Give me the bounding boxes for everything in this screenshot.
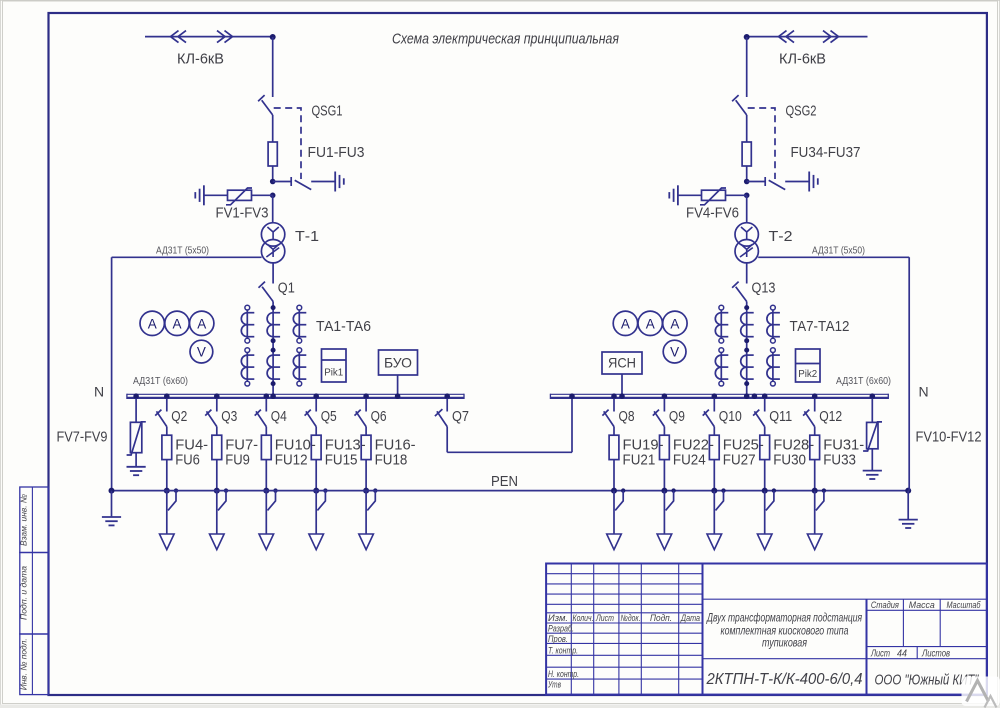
fuse FU22-FU24 [660, 435, 670, 459]
ammeter A4 [613, 311, 637, 335]
switch Q11 [764, 398, 766, 411]
PEN disconnect link [174, 488, 178, 492]
svg-text:Pik2: Pik2 [798, 368, 817, 380]
svg-text:А: А [646, 316, 655, 331]
svg-text:FU18: FU18 [375, 452, 408, 469]
svg-text:Q2: Q2 [171, 408, 187, 425]
svg-text:Разраб.: Разраб. [548, 624, 574, 634]
svg-text:Лист: Лист [595, 613, 614, 623]
svg-text:FU34-FU37: FU34-FU37 [791, 144, 861, 161]
fuse FU28-FU30 [760, 435, 770, 459]
svg-text:FU15: FU15 [325, 452, 358, 469]
node: junction below fuse [270, 179, 276, 185]
svg-text:Взам. инв. №: Взам. инв. № [19, 494, 29, 546]
disconnector QSG2 [732, 95, 739, 101]
outgoing feeder arrow [757, 534, 772, 550]
PEN disconnect link [822, 488, 826, 492]
outgoing feeder arrow [160, 534, 175, 550]
svg-text:Схема электрическая принципиал: Схема электрическая принципиальная [392, 31, 619, 48]
svg-text:Двух трансформаторная подстанц: Двух трансформаторная подстанция [706, 612, 862, 624]
fuse FU16-FU18 [361, 435, 371, 459]
svg-text:ТА7-ТА12: ТА7-ТА12 [790, 318, 850, 335]
watermark logo [962, 677, 1000, 707]
PEN disconnect link [621, 488, 625, 492]
surge arrester FV4-FV6 [702, 190, 726, 200]
ground (FV7-FV9) [127, 466, 146, 468]
sidebar box Подп. и дата [20, 553, 49, 635]
cable chevrons left-pointing [171, 31, 179, 43]
junction on PEN [762, 488, 768, 494]
svg-text:Н. контр.: Н. контр. [548, 669, 579, 679]
node: PEN left end [109, 488, 115, 494]
svg-text:Подп.: Подп. [650, 613, 672, 623]
node: bus junction Q7 [444, 393, 450, 399]
title block grid [570, 564, 572, 695]
svg-text:Утв: Утв [547, 679, 561, 689]
switch Q8 [613, 398, 615, 411]
node: bus junction infeed [270, 393, 276, 399]
ground (PEN right) [907, 491, 909, 519]
control box БУО [379, 350, 418, 375]
ground (FV10-FV12) [863, 470, 882, 472]
ground (QSG1 earthing switch) [334, 172, 336, 192]
junction on bus for Q6 [363, 393, 369, 399]
node: incoming junction [270, 34, 276, 40]
node: bus junction tie [569, 393, 575, 399]
PEN disconnect link [273, 488, 277, 492]
fuse FU34-FU37 [742, 142, 751, 166]
junction on bus for Q8 [611, 393, 617, 399]
svg-text:А: А [197, 316, 206, 331]
svg-text:Листов: Листов [921, 649, 950, 660]
fuse FU13-FU15 [311, 435, 321, 459]
cable АД31Т (5х50) right: wire from T-2 to right riser [758, 256, 909, 258]
outgoing feeder wire [663, 491, 665, 534]
junction on bus for Q5 [313, 393, 319, 399]
ground (PEN left) [111, 491, 113, 517]
switch Q2 [166, 398, 168, 411]
switch Q6 [365, 398, 367, 411]
wire: incoming cable line КЛ-6кВ right [747, 36, 868, 38]
node: junction below fuse right [744, 179, 750, 185]
svg-text:FU24: FU24 [673, 452, 706, 469]
svg-text:№док.: №док. [621, 613, 641, 623]
wire down to QSG1 [272, 37, 274, 97]
outgoing feeder wire [365, 491, 367, 534]
sidebar box Инв. № подл. [20, 634, 49, 695]
svg-text:N: N [94, 384, 104, 400]
junction on bus for Q3 [214, 393, 220, 399]
fuse FU10-FU12 [261, 435, 271, 459]
outgoing feeder arrow [359, 534, 374, 550]
svg-text:Q1: Q1 [278, 279, 295, 296]
transformer T-1 [261, 223, 284, 246]
svg-text:Подп. и дата: Подп. и дата [19, 566, 29, 620]
earthing switch of QSG1 [273, 181, 292, 183]
fuse FU25-FU27 [709, 435, 719, 459]
switch Q12 [814, 398, 816, 411]
node: bus junction FV7-FV9 [133, 393, 139, 399]
busbar section 2 [550, 393, 888, 395]
ammeter A1 [140, 311, 164, 335]
svg-text:Т-2: Т-2 [769, 228, 793, 245]
surge arrester FV1-FV3 [228, 190, 252, 200]
outgoing feeder wire [613, 491, 615, 534]
ground (FV4-FV6) [677, 185, 679, 205]
outgoing feeder wire [265, 491, 267, 534]
svg-text:FU33: FU33 [823, 452, 856, 469]
junction on bus for Q12 [812, 393, 818, 399]
svg-text:АД31Т (5х50): АД31Т (5х50) [812, 245, 865, 257]
svg-text:А: А [621, 316, 630, 331]
junction on PEN [711, 488, 717, 494]
svg-text:FU27: FU27 [723, 452, 756, 469]
svg-text:АД31Т (5х50): АД31Т (5х50) [156, 245, 209, 257]
cable АД31Т (5х50) left: wire from T-1 to left riser [112, 256, 262, 258]
ground (FV1-FV3) [203, 185, 205, 205]
switch Q10 [713, 398, 715, 411]
surge arrester FV7-FV9 [135, 398, 137, 422]
junction on PEN [363, 488, 369, 494]
svg-text:Изм.: Изм. [548, 613, 568, 623]
svg-text:Q12: Q12 [819, 408, 842, 425]
title block outer [546, 564, 987, 695]
svg-text:Т-1: Т-1 [295, 228, 319, 245]
junction on bus for Q11 [762, 393, 768, 399]
svg-text:FU12: FU12 [275, 452, 308, 469]
svg-text:FU6: FU6 [175, 452, 200, 469]
PEN disconnect link [721, 488, 725, 492]
junction on PEN [313, 488, 319, 494]
svg-text:Пров.: Пров. [548, 634, 568, 644]
surge arrester FV10-FV12 [871, 398, 873, 422]
ammeter A5 [638, 311, 662, 335]
svg-text:Q4: Q4 [271, 408, 287, 425]
ground (QSG2 earthing switch) [808, 172, 810, 192]
outgoing feeder wire [713, 491, 715, 534]
meter box Pik2 [796, 349, 821, 382]
wire to FV1-FV3 [252, 194, 273, 196]
svg-text:PEN: PEN [491, 473, 518, 490]
current transformers ТА7-ТА12 [720, 310, 722, 338]
disconnector QSG1 [258, 95, 265, 101]
outgoing feeder wire [166, 491, 168, 534]
svg-text:V: V [670, 345, 679, 360]
wire bus tie horizontal [447, 451, 572, 453]
svg-text:АД31Т (6х60): АД31Т (6х60) [836, 375, 891, 387]
svg-text:Pik1: Pik1 [324, 367, 343, 379]
sidebar box Взам. инв. № [20, 487, 49, 553]
svg-text:QSG1: QSG1 [312, 103, 343, 120]
auxiliary box ЯСН [602, 352, 642, 374]
svg-text:Дата: Дата [680, 613, 700, 623]
svg-text:2КТПН-Т-К/К-400-6/0,4: 2КТПН-Т-К/К-400-6/0,4 [706, 671, 863, 688]
svg-text:FU30: FU30 [773, 452, 806, 469]
wire: incoming cable line КЛ-6кВ left [145, 36, 273, 38]
junction on PEN [661, 488, 667, 494]
svg-text:FU21: FU21 [623, 452, 656, 469]
outgoing feeder arrow [309, 534, 324, 550]
outgoing feeder wire [315, 491, 317, 534]
ammeter A3 [190, 311, 214, 335]
wire T-1 to Q1 [272, 263, 274, 284]
svg-text:КЛ-6кВ: КЛ-6кВ [177, 51, 224, 68]
fuse FU7-FU9 [212, 435, 222, 459]
switch Q9 [663, 398, 665, 411]
outgoing feeder arrow [210, 534, 225, 550]
svg-text:А: А [172, 316, 181, 331]
ammeter A6 [663, 311, 687, 335]
junction on PEN [812, 488, 818, 494]
voltmeter V [190, 340, 213, 363]
node: bus junction infeed right [744, 393, 750, 399]
svg-text:Q5: Q5 [321, 408, 337, 425]
meter box Pik1 [322, 349, 347, 382]
svg-text:QSG2: QSG2 [786, 103, 817, 120]
svg-text:FU9: FU9 [225, 452, 250, 469]
svg-text:FV10-FV12: FV10-FV12 [916, 429, 982, 446]
outgoing feeder wire [764, 491, 766, 534]
svg-text:тупиковая: тупиковая [762, 637, 807, 649]
cable chevrons right-pointing [217, 31, 225, 43]
svg-text:А: А [148, 316, 157, 331]
svg-text:Q13: Q13 [752, 279, 776, 296]
cable chevrons right-pointing (right line) [823, 31, 831, 43]
outgoing feeder arrow [607, 534, 622, 550]
svg-text:N: N [919, 384, 929, 400]
PEN disconnect link [671, 488, 675, 492]
breaker Q1 [259, 282, 266, 288]
svg-text:КЛ-6кВ: КЛ-6кВ [779, 51, 826, 68]
PEN disconnect link [224, 488, 228, 492]
junction on bus for Q10 [712, 393, 718, 399]
svg-text:А: А [670, 316, 679, 331]
node: bus junction ЯСН [619, 393, 625, 399]
junction on bus for Q2 [164, 393, 170, 399]
current transformers ТА1-ТА6 [246, 310, 248, 338]
fuse FU31-FU33 [810, 435, 820, 459]
wire to FV4-FV6 [726, 194, 747, 196]
wire down to QSG2 [746, 37, 748, 97]
outgoing feeder arrow [707, 534, 722, 550]
node: PEN right end [905, 488, 911, 494]
node: bus junction БУО [395, 393, 401, 399]
earthing switch of QSG2 [747, 181, 766, 183]
PEN disconnect link [373, 488, 377, 492]
outgoing feeder arrow [259, 534, 274, 550]
junction on bus for Q4 [264, 393, 270, 399]
node: junction to arrester right [744, 193, 750, 199]
svg-text:Q7: Q7 [452, 408, 469, 425]
outgoing feeder wire [216, 491, 218, 534]
fuse FU4-FU6 [162, 435, 172, 459]
outgoing feeder arrow [657, 534, 672, 550]
fuse FU19-FU21 [609, 435, 619, 459]
svg-text:Q11: Q11 [769, 408, 792, 425]
wire to transformer T-2 [746, 195, 748, 223]
QSG1 linkage dashed [274, 108, 301, 179]
node: junction to arrester [270, 193, 276, 199]
cable chevrons left-pointing (right line) [779, 31, 787, 43]
svg-text:АД31Т (6х60): АД31Т (6х60) [133, 375, 188, 387]
svg-text:Стадия: Стадия [871, 600, 899, 611]
junction on PEN [164, 488, 170, 494]
svg-text:Q3: Q3 [221, 408, 237, 425]
junction on bus for Q9 [662, 393, 668, 399]
node: bus junction FV10-FV12 [870, 393, 876, 399]
junction on PEN [263, 488, 269, 494]
svg-text:V: V [197, 345, 206, 360]
switch Q5 [315, 398, 317, 411]
svg-text:Q10: Q10 [719, 408, 742, 425]
fuse FU1-FU3 [268, 142, 277, 166]
svg-text:Т. контр.: Т. контр. [548, 645, 578, 655]
bus tie switch Q7 [446, 398, 448, 411]
wire T-2 to Q13 [746, 263, 748, 284]
voltmeter V right [663, 340, 686, 363]
svg-text:Инв. № подл.: Инв. № подл. [19, 638, 29, 690]
PEN disconnect link [323, 488, 327, 492]
svg-text:Лист: Лист [870, 649, 890, 660]
svg-text:Q9: Q9 [669, 408, 685, 425]
svg-text:Масштаб: Масштаб [947, 600, 982, 611]
wire PEN [112, 490, 909, 492]
switch Q3 [216, 398, 218, 411]
junction on PEN [214, 488, 220, 494]
svg-text:FV7-FV9: FV7-FV9 [57, 429, 108, 446]
svg-text:комплектная киоскового типа: комплектная киоскового типа [721, 625, 849, 637]
svg-text:FV4-FV6: FV4-FV6 [686, 205, 739, 222]
junction on PEN [611, 488, 617, 494]
svg-text:ТА1-ТА6: ТА1-ТА6 [316, 318, 371, 335]
svg-text:ЯСН: ЯСН [608, 355, 636, 371]
outgoing feeder wire [814, 491, 816, 534]
QSG2 linkage dashed [748, 108, 775, 179]
svg-text:БУО: БУО [384, 355, 412, 371]
svg-text:Q8: Q8 [619, 408, 635, 425]
svg-text:Колич.: Колич. [573, 613, 594, 623]
switch Q4 [265, 398, 267, 411]
svg-text:Масса: Масса [909, 600, 935, 611]
node: bus junction aux [752, 393, 758, 399]
transformer T-2 [735, 223, 758, 246]
svg-text:FV1-FV3: FV1-FV3 [216, 205, 269, 222]
node: incoming junction right [744, 34, 750, 40]
PEN disconnect link [772, 488, 776, 492]
breaker Q13 [732, 282, 739, 288]
ammeter A2 [165, 311, 189, 335]
svg-text:FU1-FU3: FU1-FU3 [308, 144, 365, 161]
outgoing feeder arrow [807, 534, 822, 550]
svg-text:Q6: Q6 [371, 408, 387, 425]
wire to transformer [272, 195, 274, 223]
busbar section 1 [127, 393, 464, 395]
svg-text:44: 44 [897, 649, 907, 660]
